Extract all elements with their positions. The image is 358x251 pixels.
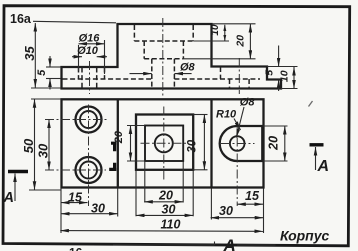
svg-text:30: 30 (36, 143, 51, 158)
svg-text:30: 30 (162, 202, 176, 216)
svg-text:20: 20 (235, 35, 247, 48)
svg-text:A: A (317, 158, 330, 175)
svg-text:110: 110 (161, 218, 181, 232)
svg-text:Ø10: Ø10 (77, 45, 99, 57)
svg-text:20: 20 (158, 189, 173, 203)
svg-text:A: A (3, 190, 14, 206)
svg-text:Ø8: Ø8 (240, 97, 256, 109)
svg-text:20: 20 (267, 136, 281, 151)
svg-text:16: 16 (69, 246, 83, 251)
svg-text:Ø8: Ø8 (180, 62, 196, 74)
svg-text:30: 30 (219, 204, 233, 218)
svg-text:15: 15 (68, 190, 83, 204)
svg-text:35: 35 (22, 46, 37, 61)
svg-text:15: 15 (245, 189, 260, 203)
svg-text:30: 30 (91, 202, 105, 216)
svg-text:5: 5 (36, 69, 48, 76)
svg-text:50: 50 (21, 138, 36, 153)
svg-text:16a: 16a (10, 12, 32, 26)
svg-text:A: A (223, 236, 236, 251)
svg-text:20: 20 (113, 130, 125, 144)
svg-text:Корпус: Корпус (280, 228, 330, 244)
svg-text:5: 5 (264, 70, 276, 76)
svg-text:30: 30 (186, 139, 198, 152)
svg-text:10: 10 (210, 24, 221, 36)
svg-text:10: 10 (279, 70, 291, 82)
svg-text:Ø16: Ø16 (79, 33, 101, 45)
